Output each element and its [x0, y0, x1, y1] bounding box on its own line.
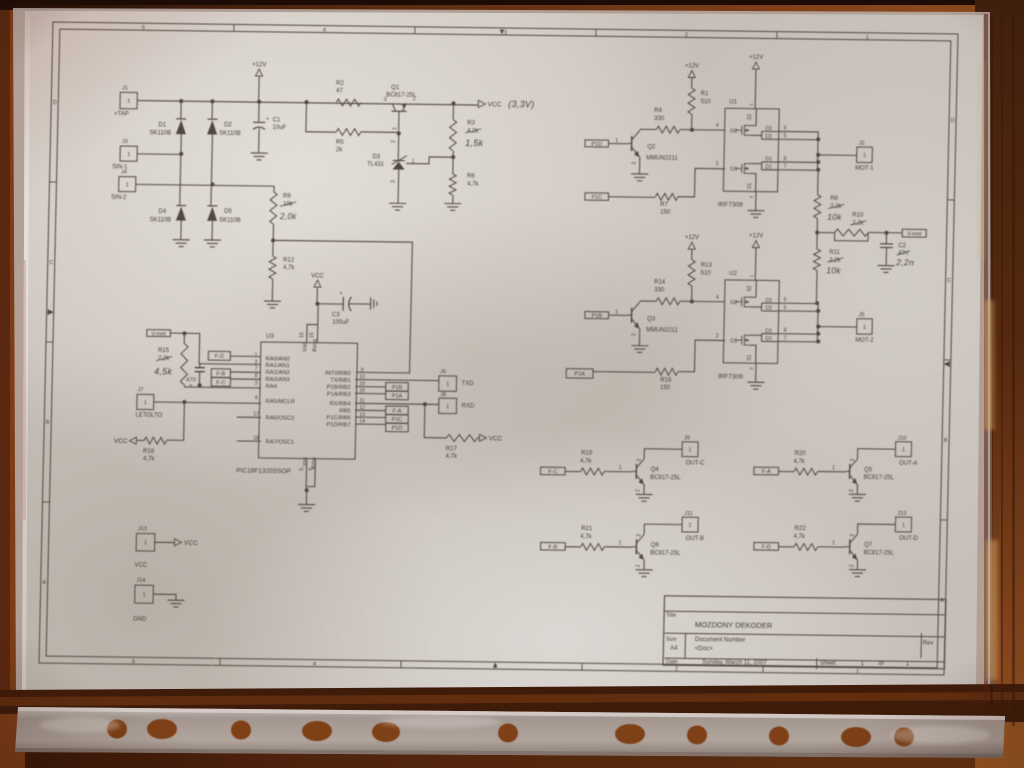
- diode D5 SK110B: [207, 205, 217, 207]
- wire: [691, 77, 693, 88]
- wire emitter to ground: [638, 329, 640, 346]
- VCC arrow left: [129, 437, 136, 444]
- wire base to D3: [397, 134, 400, 161]
- border tick left: [43, 501, 50, 503]
- border center arrow top: [500, 29, 505, 34]
- wire emitter to ground: [856, 484, 858, 494]
- ground U3: [298, 504, 315, 511]
- shunt reference D3 TL431: [393, 160, 405, 162]
- wire U3 Vss pin 5: [305, 459, 308, 490]
- ground J14: [167, 600, 184, 607]
- resistor R7: [655, 193, 678, 200]
- border tick right: [947, 199, 954, 201]
- wire D2 join: [749, 306, 762, 308]
- resistor R16: [655, 368, 678, 375]
- resistor R2: [336, 99, 361, 106]
- junction: [816, 137, 820, 141]
- VCC arrow output: [478, 100, 485, 107]
- wire emitter to ground: [856, 560, 858, 570]
- junction: [210, 182, 214, 186]
- wire D2 join: [749, 134, 762, 136]
- wire U3 Vdd pin 16: [307, 324, 318, 342]
- resistor R9: [270, 192, 278, 224]
- ground C1: [251, 153, 268, 160]
- wire to F-A: [355, 409, 386, 411]
- wire D1 pin7 inner: [762, 169, 778, 171]
- wire TX/RB1 to J6: [355, 380, 439, 381]
- sheen blotches on plastic strip: [40, 716, 990, 744]
- wire R10 bypass loop: [835, 232, 869, 241]
- wire D2 to D5: [211, 135, 213, 206]
- IC U3 PIC18F1320: [258, 342, 357, 459]
- wire pin8: [777, 333, 818, 336]
- wire D2 bar: [760, 303, 762, 311]
- title block outer: [663, 596, 946, 669]
- wire VCC to R3: [452, 103, 454, 119]
- wire VCC to node: [316, 287, 318, 304]
- title block divider Size: [684, 633, 687, 658]
- resistor R5: [336, 128, 361, 135]
- wire to MOT connector: [818, 326, 857, 329]
- wire to R: [593, 371, 656, 374]
- wire D4 to ground: [180, 221, 182, 240]
- connector J8 RXD: [439, 398, 457, 414]
- ground C3: [371, 298, 378, 310]
- title block row line: [665, 633, 945, 637]
- wire emitter to ground: [638, 157, 640, 174]
- wire S2: [749, 280, 756, 297]
- glare highlights on right plastic edge: [978, 60, 998, 680]
- net label P1D: [585, 140, 609, 147]
- wire R to base: [817, 470, 845, 472]
- ground Q2: [631, 174, 648, 181]
- wire pin8: [778, 161, 819, 164]
- IC U1 IRF7309: [723, 108, 779, 192]
- title block: [663, 596, 946, 671]
- wire to C2: [885, 233, 887, 244]
- connector J6 TXD: [439, 376, 457, 392]
- wire R8 to node: [816, 218, 818, 232]
- wire D1 pin8 inner: [762, 161, 778, 163]
- net label P1C: [585, 193, 609, 201]
- connector J9 OUT-C: [682, 442, 698, 457]
- wood right strip: [975, 0, 1024, 768]
- transistor Q2 MMUN2211: [628, 130, 640, 157]
- resistor R4: [656, 126, 680, 133]
- border center arrow left: [48, 309, 54, 315]
- connector J4 SIN-2: [119, 177, 136, 192]
- transistor Q3 MMUN2211: [628, 302, 640, 329]
- wire to P1C: [355, 416, 386, 418]
- net label P1C: [386, 415, 409, 424]
- wire R12 to ground: [271, 279, 273, 301]
- junction R9/R12: [271, 238, 275, 242]
- net label P1B: [386, 382, 409, 391]
- resistor R11: [813, 249, 820, 270]
- ground Q3: [631, 346, 648, 353]
- wire pin7: [778, 340, 819, 343]
- ground R6: [444, 203, 461, 210]
- wood left strip: [0, 10, 25, 768]
- wire D1 pin7 inner: [762, 340, 778, 342]
- wire node to R11: [816, 232, 818, 249]
- junction: [816, 309, 820, 313]
- wire D1 join: [749, 162, 762, 164]
- junction J7/R18: [182, 400, 186, 404]
- wire to G2: [680, 129, 725, 132]
- junction: [179, 99, 183, 103]
- wire V-mot to RA1: [170, 333, 262, 365]
- net label P1B: [585, 312, 609, 319]
- junction: [816, 153, 820, 157]
- junction: [451, 101, 455, 105]
- transistor Q7 BC817-25L: [845, 534, 858, 560]
- junction: [304, 100, 308, 104]
- junction R3/R6: [451, 155, 455, 159]
- connector J12 OUT-D: [895, 517, 911, 532]
- border tick top: [233, 24, 235, 31]
- border tick bottom: [762, 666, 764, 673]
- wire D1 bar: [761, 162, 763, 170]
- connector J7 LETOLTO: [137, 394, 154, 409]
- mosfet G1 of U2: [735, 335, 750, 346]
- resistor R22: [794, 543, 818, 550]
- wire S1 to ground: [755, 192, 757, 211]
- wire S1 to ground: [755, 364, 757, 383]
- wire +12V to S2: [754, 248, 757, 280]
- paper crease (decorative): [188, 516, 253, 697]
- wire to node: [691, 286, 693, 302]
- wire R11 to U2 bus: [815, 270, 818, 303]
- wire J14 to ground: [153, 594, 176, 600]
- junction RXD/R17: [423, 402, 427, 406]
- wire base: [609, 142, 629, 144]
- +12V power R1: [688, 70, 695, 77]
- resistor R8: [814, 195, 821, 218]
- title block row line: [665, 611, 945, 615]
- wire F-C to RA3: [230, 378, 261, 380]
- border tick bottom: [219, 658, 221, 665]
- wire R5 to Q1 base node: [361, 131, 399, 134]
- wire pin6 + output bus: [777, 303, 819, 341]
- connector J3 SIN-1: [120, 146, 137, 161]
- wire C3 to ground: [349, 303, 371, 305]
- wire D2 pin6 inner: [762, 130, 778, 132]
- wire D1 to D4: [180, 134, 182, 205]
- wire +12V stem: [258, 76, 261, 102]
- border center arrow bottom: [493, 663, 498, 668]
- wire node to R10: [817, 231, 835, 233]
- wood top strip: [0, 0, 1024, 16]
- wire Q collector: [640, 300, 657, 302]
- wire S2: [749, 108, 756, 125]
- wire to G1: [678, 168, 725, 197]
- diode D1 SK110B: [176, 118, 186, 120]
- connector J2 MOT-1: [857, 147, 873, 163]
- V-mot divider cluster: [812, 170, 928, 307]
- output cell Q5: [753, 434, 918, 502]
- ground D5: [204, 240, 221, 247]
- power connectors: [133, 526, 198, 623]
- punched holes: [107, 719, 914, 747]
- junction: [257, 100, 261, 104]
- +12V power U1: [752, 62, 759, 69]
- wire pin7: [777, 169, 818, 172]
- wire J7 to MCLR: [154, 402, 261, 403]
- wire bus to D1: [180, 101, 182, 119]
- connector J5 MOT-2: [857, 319, 873, 335]
- wire D1 pin8 inner: [762, 333, 778, 335]
- net label F-B: [211, 369, 230, 378]
- resistor R15: [180, 343, 188, 384]
- junction V-mot/R15: [182, 331, 186, 335]
- resistor R1: [688, 88, 695, 114]
- wire bus to R8: [817, 170, 820, 195]
- net label F-B: [540, 542, 565, 550]
- wire D3 ref to R3/R6 node: [406, 157, 453, 165]
- VCC arrow J13: [174, 539, 181, 546]
- junction: [179, 152, 183, 156]
- wire to P1A: [355, 392, 386, 394]
- wire bus to D2: [211, 101, 213, 119]
- wire emitter to ground: [643, 484, 645, 494]
- junction: [198, 383, 202, 387]
- wire to R: [565, 546, 581, 548]
- wire to P1D: [355, 423, 386, 425]
- title block divider Sheet: [816, 658, 818, 669]
- wire collector to out connector: [857, 449, 895, 459]
- wire emitter to ground: [643, 560, 645, 570]
- VCC power symbol above U3: [314, 280, 321, 287]
- wire RX/RB4 to J8: [355, 403, 439, 404]
- ground Q6: [636, 570, 653, 577]
- net label F-C: [211, 378, 230, 387]
- wire pin5: [777, 310, 818, 313]
- resistor R19: [581, 468, 605, 475]
- connector J13 VCC: [136, 533, 155, 551]
- resistor R20: [794, 468, 818, 475]
- wire D2 bar: [761, 131, 763, 139]
- ground Q7: [849, 570, 866, 577]
- wire node to R6: [452, 157, 454, 174]
- wire SIN-2 to R9: [135, 184, 274, 191]
- bottom wood gap between paper and plastic strip: [0, 684, 1024, 722]
- wire R17 to VCC: [477, 437, 479, 439]
- wire D5 to ground: [211, 221, 213, 240]
- +12V power U2: [752, 241, 759, 248]
- wire to R: [565, 470, 581, 472]
- junction: [816, 325, 820, 329]
- ground Q5: [849, 494, 866, 501]
- border tick top: [414, 27, 416, 34]
- IC U2 IRF7309: [723, 280, 779, 364]
- capacitor C1: [253, 121, 265, 123]
- output cell Q6: [540, 509, 705, 577]
- wire to G1: [678, 340, 725, 372]
- wire D1 bar: [761, 334, 763, 342]
- wire S1: [749, 173, 756, 191]
- resistor R12: [269, 256, 276, 279]
- net label F-A: [754, 467, 779, 475]
- wire D1 join: [749, 334, 762, 336]
- border tick right: [944, 359, 951, 361]
- wire to G2: [680, 300, 725, 303]
- wire F-B to RA2: [230, 371, 261, 373]
- wire R9 to node: [272, 224, 274, 240]
- wire D2 pin5 inner: [762, 310, 778, 312]
- VCC arrow right: [479, 434, 486, 441]
- hand-drawn capacitor: [194, 364, 204, 386]
- junction R8/R10/R11: [815, 230, 819, 234]
- wire RA7 stub: [237, 440, 261, 442]
- title block divider Rev: [920, 633, 923, 658]
- junction Q1 base: [397, 131, 401, 135]
- diode D2 SK110B: [207, 118, 217, 120]
- junction: [210, 99, 214, 103]
- net label P1A: [566, 369, 593, 379]
- wire U3 AVdd pin 15: [316, 304, 319, 342]
- wire F-D to RA0: [230, 355, 261, 357]
- schematic border frame: [39, 22, 958, 675]
- transistor Q4 BC817-25L: [632, 458, 645, 484]
- ground C2: [877, 266, 894, 273]
- net label V-mot: [147, 330, 171, 337]
- border center arrow right: [944, 361, 950, 367]
- net label P1D: [386, 423, 409, 432]
- wire D2 pin6 inner: [762, 302, 778, 304]
- junction VCC/C3: [315, 302, 319, 306]
- ground D4: [173, 240, 190, 247]
- wire to R18: [166, 402, 184, 441]
- wire pin6 + output bus: [777, 131, 819, 169]
- wire R to base: [604, 470, 632, 472]
- net label V-mot (right): [902, 229, 926, 237]
- wire pin5: [778, 138, 819, 141]
- wire +12V to S2: [754, 69, 757, 108]
- transistor Q1 BC817-25L: [391, 103, 407, 133]
- wire to R: [608, 196, 655, 199]
- junction: [690, 299, 694, 303]
- junction: [816, 168, 820, 172]
- diode D4 SK110B: [176, 204, 186, 206]
- transistor Q6 BC817-25L: [632, 534, 645, 560]
- ground U2 S1: [747, 382, 764, 389]
- wire SIN-1: [137, 153, 181, 156]
- resistor R6: [449, 174, 456, 195]
- driver cell 2: [566, 231, 877, 394]
- junction: [816, 332, 820, 336]
- wire bus to R5: [306, 102, 337, 132]
- border tick top: [776, 32, 778, 39]
- wire to R17: [424, 404, 447, 438]
- connector J10 OUT-A: [895, 442, 911, 457]
- +12V power R13: [688, 242, 695, 249]
- wire R9 node to INT0/RB0 pin 9: [270, 240, 412, 373]
- wire RA6 stub: [237, 416, 261, 418]
- junction: [816, 339, 820, 343]
- title block row line: [665, 658, 945, 662]
- junction: [816, 160, 820, 164]
- wire: [183, 333, 185, 343]
- wire collector to out connector: [644, 449, 682, 459]
- transistor Q5 BC817-25L: [845, 458, 858, 484]
- wire to MOT connector: [818, 154, 857, 157]
- junction: [690, 128, 694, 132]
- mosfet G2 of U1: [735, 125, 750, 136]
- wire D3 to ground: [397, 170, 400, 204]
- net label F-C: [540, 467, 565, 475]
- junction C2: [884, 231, 888, 235]
- wire U3 AVss pin 6: [307, 459, 316, 487]
- resistor R13: [688, 260, 695, 286]
- output cell Q7: [753, 509, 919, 577]
- wire to R: [778, 546, 794, 548]
- wire R3 to node: [452, 151, 454, 158]
- wire S1: [749, 345, 756, 363]
- ground U1 S1: [747, 211, 764, 218]
- wood grain on right strip: [990, 16, 1015, 726]
- wire node to C3: [317, 303, 343, 305]
- wire R to base: [604, 546, 632, 548]
- junction Vss: [305, 488, 309, 492]
- wire C2 to ground: [885, 248, 887, 266]
- wire R to base: [818, 546, 846, 548]
- wire C1 to ground: [258, 129, 261, 154]
- dark sleeve edge line on right: [984, 14, 988, 702]
- wire R6 to ground: [452, 195, 454, 204]
- border tick top: [595, 29, 597, 36]
- mosfet G2 of U2: [735, 296, 750, 307]
- wire Q collector: [640, 128, 657, 130]
- wire to R: [778, 470, 794, 472]
- wire to P1B: [355, 386, 386, 388]
- resistor R21: [581, 543, 605, 550]
- wire bus to C1: [258, 102, 260, 123]
- resistor R18: [144, 437, 167, 444]
- ground Q4: [635, 494, 652, 501]
- wire collector to out connector: [858, 524, 896, 534]
- net label P1A: [386, 391, 409, 400]
- mosfet G1 of U1: [735, 163, 750, 174]
- border tick bottom: [581, 663, 583, 670]
- ground D3: [389, 203, 406, 210]
- MCU section: [112, 271, 506, 514]
- border tick right: [940, 519, 947, 521]
- wire R15 to RA4: [185, 385, 261, 388]
- connector J14 GND: [135, 585, 154, 603]
- connector J1 +TAP: [120, 92, 137, 109]
- wire J13 to VCC: [155, 541, 175, 543]
- +12V power symbol: [255, 69, 262, 76]
- resistor R10: [835, 229, 869, 236]
- capacitor C3 100uF: [342, 297, 344, 311]
- capacitor C2: [880, 243, 893, 245]
- junction R11/U2 pin6: [815, 301, 819, 305]
- border tick left: [50, 181, 57, 183]
- net label F-A: [386, 406, 409, 415]
- connector J11 OUT-B: [682, 517, 698, 532]
- wire Vss to ground: [305, 490, 307, 504]
- ground R12: [264, 301, 281, 308]
- wire collector to out connector: [644, 524, 682, 534]
- wire to node: [691, 114, 693, 130]
- output cell Q4: [540, 434, 706, 502]
- resistor R14: [656, 298, 680, 305]
- plastic strip with punched holes: [15, 707, 1005, 758]
- resistor R17: [446, 434, 477, 441]
- wire node to R12: [272, 240, 274, 256]
- resistor R3: [449, 119, 456, 150]
